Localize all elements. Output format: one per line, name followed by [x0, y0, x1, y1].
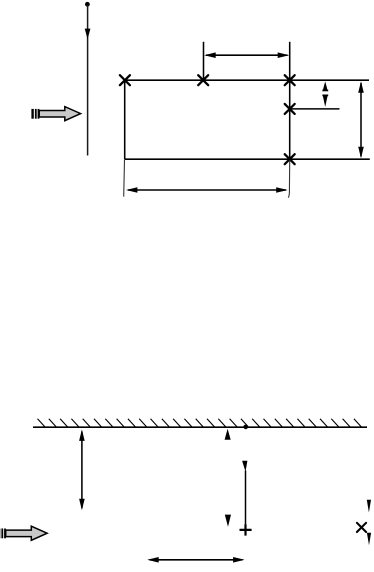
surface hatching: [38, 419, 362, 427]
hole mark top-right: [285, 75, 295, 85]
hole spacing dimension (top): [204, 52, 289, 58]
side offset lower arrowhead (right edge): [367, 533, 371, 546]
right extension line below pocket: [288, 160, 290, 198]
depth continuation arrowhead: [225, 515, 231, 527]
hole mark bottom-right: [285, 154, 295, 164]
hole mark top-center: [198, 75, 208, 85]
start point dot: [85, 2, 90, 7]
surface reference dot: [243, 425, 248, 430]
infeed arrow icon (top): [31, 107, 80, 121]
infeed arrow icon (bottom): [0, 526, 47, 540]
depth arrow with shaft: [242, 461, 247, 525]
left extension line below pocket: [123, 160, 126, 197]
side offset upper arrowhead (right edge): [367, 500, 371, 513]
hole mark top-left: [120, 75, 130, 85]
set-up clearance dimension: [79, 429, 85, 510]
bottom width dimension: [147, 557, 244, 563]
target position cross: [240, 524, 252, 535]
pocket width dimension: [126, 187, 288, 193]
right hole offset line: [290, 108, 340, 110]
rectangle height dimension: [358, 81, 364, 158]
hole mark bottom-right corner: [357, 523, 366, 532]
hole mark right-middle: [285, 104, 295, 114]
right hole column line: [289, 42, 291, 160]
tool plunge line: [87, 5, 89, 156]
pocket bottom edge: [125, 158, 370, 160]
extension line at center hole: [203, 42, 205, 81]
pocket top edge: [125, 79, 369, 81]
plunge direction arrowhead: [85, 29, 91, 40]
workpiece surface line: [33, 426, 367, 428]
hole offset dimension (compressed arrows): [322, 81, 328, 107]
pocket left edge: [124, 80, 126, 159]
approach arrowhead at surface: [225, 429, 231, 440]
